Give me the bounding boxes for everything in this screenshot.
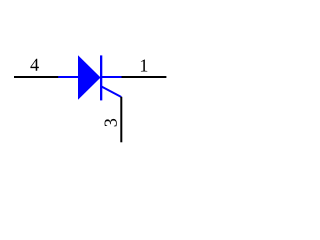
pin number 3: [105, 119, 117, 127]
thyristor anode triangle: [78, 55, 101, 100]
wire gate stub diagonal (blue): [101, 86, 121, 97]
wire pin 1 cathode lead (black): [122, 76, 167, 78]
wire cathode stub (blue): [101, 76, 122, 78]
pin number 4: [30, 59, 38, 71]
pin number 1: [141, 59, 147, 71]
wire pin 4 anode lead (black): [14, 76, 59, 78]
wire pin 3 gate lead (black): [120, 97, 122, 143]
wire anode stub (blue): [58, 76, 78, 78]
thyristor cathode bar: [100, 55, 102, 100]
